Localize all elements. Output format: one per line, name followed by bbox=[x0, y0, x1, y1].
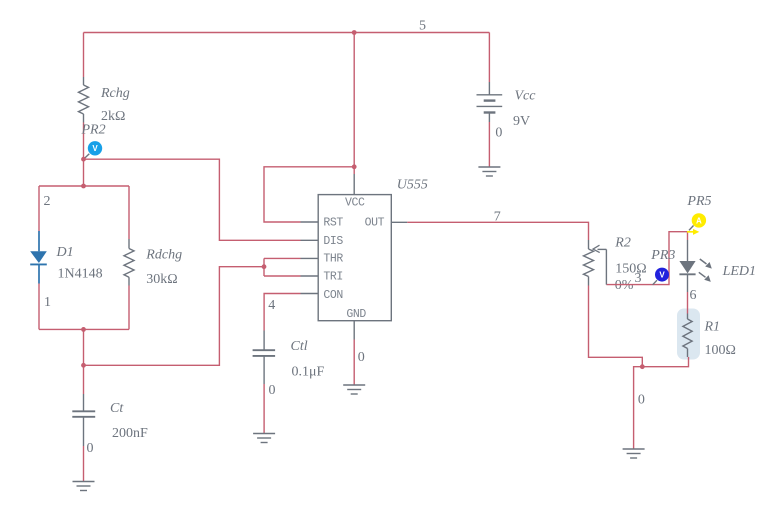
svg-text:THR: THR bbox=[323, 253, 343, 266]
svg-text:D1: D1 bbox=[56, 245, 74, 260]
svg-text:1: 1 bbox=[44, 295, 51, 310]
svg-text:0: 0 bbox=[495, 126, 502, 141]
svg-text:0%: 0% bbox=[615, 278, 634, 293]
svg-text:4: 4 bbox=[268, 298, 275, 313]
svg-text:0: 0 bbox=[638, 393, 645, 408]
svg-text:9V: 9V bbox=[513, 114, 530, 129]
svg-text:VCC: VCC bbox=[345, 196, 365, 209]
svg-text:OUT: OUT bbox=[365, 216, 385, 229]
svg-text:150Ω: 150Ω bbox=[615, 262, 646, 277]
svg-text:GND: GND bbox=[346, 308, 366, 321]
svg-text:R2: R2 bbox=[614, 236, 631, 251]
svg-text:TRI: TRI bbox=[323, 271, 343, 284]
svg-text:PR5: PR5 bbox=[686, 194, 711, 209]
svg-text:2: 2 bbox=[44, 194, 51, 209]
svg-text:30kΩ: 30kΩ bbox=[146, 272, 177, 287]
svg-text:5: 5 bbox=[419, 19, 426, 34]
svg-text:Vcc: Vcc bbox=[515, 89, 537, 104]
svg-text:PR2: PR2 bbox=[81, 123, 106, 138]
svg-text:1N4148: 1N4148 bbox=[58, 267, 103, 282]
svg-text:0: 0 bbox=[87, 441, 94, 456]
svg-text:A: A bbox=[696, 216, 702, 225]
svg-text:0: 0 bbox=[269, 383, 276, 398]
svg-text:Rdchg: Rdchg bbox=[145, 247, 182, 262]
svg-text:DIS: DIS bbox=[323, 235, 343, 248]
svg-text:R1: R1 bbox=[704, 320, 721, 335]
svg-text:V: V bbox=[659, 271, 665, 280]
svg-text:Rchg: Rchg bbox=[100, 86, 130, 101]
svg-text:CON: CON bbox=[323, 289, 343, 302]
svg-text:7: 7 bbox=[494, 210, 501, 225]
svg-text:6: 6 bbox=[690, 288, 697, 303]
svg-text:Ctl: Ctl bbox=[291, 339, 308, 354]
svg-text:100Ω: 100Ω bbox=[705, 343, 736, 358]
svg-text:0.1μF: 0.1μF bbox=[292, 365, 325, 380]
svg-text:0: 0 bbox=[358, 350, 365, 365]
svg-text:200nF: 200nF bbox=[112, 426, 148, 441]
svg-text:LED1: LED1 bbox=[722, 264, 756, 279]
svg-text:U555: U555 bbox=[397, 178, 428, 193]
svg-text:V: V bbox=[92, 144, 98, 153]
svg-text:RST: RST bbox=[323, 216, 343, 229]
svg-text:Ct: Ct bbox=[110, 401, 124, 416]
svg-text:PR3: PR3 bbox=[650, 248, 675, 263]
